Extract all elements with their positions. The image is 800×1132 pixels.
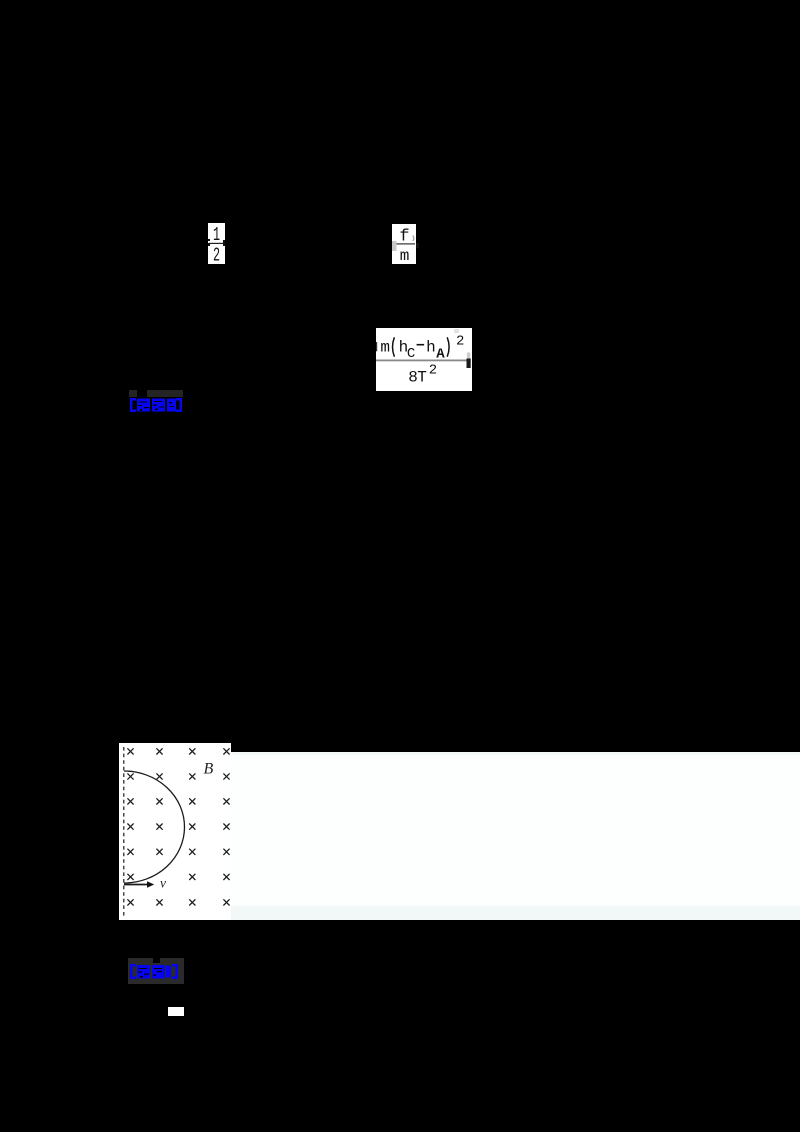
figure white band extending right bbox=[231, 752, 800, 920]
svg-text:m: m bbox=[400, 247, 410, 264]
blue header 1 (answer section) with gray smudge above bbox=[129, 390, 183, 397]
black dot right edge f/m bbox=[416, 243, 419, 248]
svg-text:B: B bbox=[204, 761, 214, 778]
gray paren right edge bbox=[413, 236, 414, 242]
right bracket bbox=[176, 398, 182, 412]
svg-text:2: 2 bbox=[429, 363, 437, 379]
big fraction image m(hC-hA)^2 / 8T^2 bbox=[376, 328, 472, 391]
gray block left edge bbox=[392, 241, 397, 251]
glyph blob 1 bbox=[137, 399, 150, 412]
svg-text:h: h bbox=[426, 338, 436, 356]
row 4 bbox=[127, 824, 133, 830]
numerator 1 bbox=[213, 225, 220, 247]
fraction image 1/2 bbox=[208, 223, 225, 264]
denominator 2 bbox=[213, 245, 220, 267]
gray fleck above sup bbox=[454, 329, 459, 333]
small white inline image bbox=[168, 1007, 184, 1016]
figure white background (diagram panel) bbox=[119, 743, 231, 920]
faint dim strip at band bottom bbox=[231, 906, 800, 920]
glyph blob 2 bbox=[152, 399, 165, 412]
svg-text:2: 2 bbox=[456, 333, 464, 349]
row 2 bbox=[127, 773, 133, 779]
glyph blob 2 bbox=[152, 965, 165, 979]
row 3 bbox=[127, 798, 133, 804]
blue header 2 (key point section) with dark halo bbox=[128, 958, 185, 984]
dashed boundary line bbox=[123, 747, 125, 917]
svg-text:v: v bbox=[160, 876, 166, 891]
fraction bar bbox=[393, 243, 415, 244]
equals notches at edges of 1/2 bbox=[208, 239, 210, 241]
row 7 bbox=[127, 899, 133, 905]
svg-text:T: T bbox=[417, 369, 427, 387]
row 1 bbox=[127, 748, 133, 754]
left bracket bbox=[130, 398, 136, 412]
left bracket bbox=[130, 964, 136, 979]
glyph blob 1 bbox=[137, 965, 150, 979]
gray block right edge bbox=[467, 353, 470, 359]
svg-text:2: 2 bbox=[213, 245, 220, 264]
semicircular path of charge bbox=[124, 771, 185, 883]
glyph blob 3 bbox=[167, 399, 176, 412]
fraction image f/m bbox=[392, 224, 416, 264]
left edge sliver bbox=[376, 342, 377, 351]
arrowhead bbox=[147, 881, 154, 888]
fraction bar bbox=[209, 243, 224, 244]
field crosses bbox=[127, 748, 229, 905]
right bracket bbox=[172, 964, 178, 979]
svg-text:m: m bbox=[380, 338, 390, 356]
small dark glyph at right edge bbox=[467, 359, 471, 369]
velocity arrow bbox=[124, 884, 148, 886]
fraction bar bbox=[376, 360, 469, 362]
magnetic field diagram ink bbox=[119, 743, 800, 920]
row 6 bbox=[127, 874, 133, 880]
faint dim strip at band top edge bbox=[231, 752, 800, 755]
row 5 bbox=[127, 849, 133, 855]
